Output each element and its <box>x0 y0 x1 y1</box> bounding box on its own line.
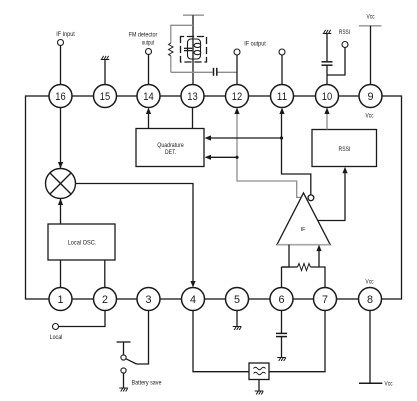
capacitor at pin 10 <box>322 61 333 63</box>
wire quad det to pin 14 <box>148 113 150 129</box>
ground pin 5 <box>233 327 242 331</box>
mixer X1 <box>46 169 76 199</box>
wire filter to ground <box>258 380 260 392</box>
wire Vcc to pin 9 <box>370 26 372 85</box>
pin circles <box>49 85 382 311</box>
svg-text:IF output: IF output <box>244 41 266 48</box>
pin 9 <box>359 85 382 108</box>
svg-text:output: output <box>142 40 155 47</box>
svg-text:Local: Local <box>50 334 63 341</box>
wire pin 6 to cap <box>281 311 283 334</box>
wire IF amp to RSSI <box>318 173 345 221</box>
wire RSSI terminal to pin10 wire <box>327 48 345 76</box>
wire FM det output to pin 14 <box>148 55 150 85</box>
svg-text:Vcc: Vcc <box>366 280 374 286</box>
svg-text:1: 1 <box>57 294 63 306</box>
wire quad det input lower <box>211 156 238 158</box>
pin 11 <box>271 85 294 108</box>
block RSSI <box>312 130 377 167</box>
pin 4 <box>182 288 205 311</box>
pin 1 <box>49 288 72 311</box>
pin 15 <box>94 85 117 108</box>
terminal circle above pin 12 <box>234 49 240 55</box>
IC outline U1 <box>26 96 402 299</box>
ground battery save <box>119 388 128 392</box>
wire quad det input upper <box>211 137 282 139</box>
wire local osc to pin 1 <box>60 260 62 288</box>
arrow into pin 11 <box>279 108 284 115</box>
wire through coil <box>192 37 194 63</box>
svg-text:RSSI: RSSI <box>339 146 351 153</box>
pin 12 <box>226 85 249 108</box>
wire cap to ground <box>281 337 283 358</box>
svg-text:16: 16 <box>55 91 65 103</box>
wire quad det to pin 13 <box>192 108 194 129</box>
svg-text:5: 5 <box>234 294 240 306</box>
pin 5 <box>226 288 249 311</box>
wire pin 8 to Vcc bar <box>369 311 371 384</box>
arrow into mixer bottom <box>58 199 63 206</box>
arrow into pin 4 <box>190 281 195 288</box>
capacitor at pin 6 <box>276 332 287 334</box>
wire local osc to mixer <box>60 199 62 224</box>
coil loop upper <box>194 43 201 47</box>
wire pin 3 to switch <box>137 311 149 365</box>
resistor tank R <box>169 43 173 56</box>
pin number labels <box>55 91 373 306</box>
wire ground to pin 15 <box>104 60 106 85</box>
wire feedback resistor run <box>281 267 283 288</box>
arrow into pin 14 <box>146 108 151 115</box>
wire mixer output to pin 4 <box>76 184 194 282</box>
Vcc bottom bar <box>359 382 382 384</box>
svg-text:IF Input: IF Input <box>56 31 75 38</box>
wire cap to pin 10 <box>326 65 328 84</box>
coil loop lower <box>194 51 201 55</box>
wire switch to ground <box>123 373 125 388</box>
op-amp IF limiter <box>277 193 330 245</box>
block Quadrature DET. <box>136 129 204 167</box>
arrow into pin 12 <box>234 108 239 115</box>
quad tank top bar (gray) <box>183 14 204 16</box>
svg-text:6: 6 <box>278 294 284 306</box>
wire tank bottom to series cap (gray) <box>171 71 213 73</box>
wire RSSI to pin 10 (gray) <box>326 112 328 130</box>
wire pin 2 to Local <box>59 311 106 327</box>
svg-text:11: 11 <box>277 91 287 103</box>
arrow into quad det lower <box>205 155 212 160</box>
wire pin 5 to ground <box>236 311 238 327</box>
svg-text:RSSI: RSSI <box>339 29 350 36</box>
ground pin 6 <box>277 358 286 362</box>
pin 10 <box>316 85 339 108</box>
pin 13 <box>181 85 204 108</box>
svg-text:3: 3 <box>145 294 151 306</box>
svg-text:9: 9 <box>367 91 373 103</box>
svg-text:DET.: DET. <box>165 149 176 156</box>
wire pin16 to mixer <box>60 108 62 169</box>
battery save switch <box>117 341 131 343</box>
wire filter to pin 7 <box>269 311 325 372</box>
wire IF input to pin 16 <box>60 46 62 85</box>
inverting output bubble <box>308 195 314 201</box>
ceramic filter FL1 <box>249 363 269 380</box>
pin 3 <box>137 288 160 311</box>
svg-text:7: 7 <box>322 294 328 306</box>
svg-text:Local OSC.: Local OSC. <box>68 239 97 246</box>
svg-text:12: 12 <box>232 91 242 103</box>
wire ground to cap <box>326 34 328 62</box>
pin 2 <box>94 288 117 311</box>
wire to pin 12 <box>236 55 238 85</box>
block Local OSC. <box>48 224 115 260</box>
pin 6 <box>270 288 293 311</box>
ground at pin 15 <box>101 56 110 60</box>
coil body <box>188 39 201 59</box>
junction at pin11 wire <box>280 136 283 139</box>
terminal circle above pin 11 <box>279 49 285 55</box>
arrow into RSSI bottom <box>342 167 347 174</box>
svg-text:Vcc: Vcc <box>367 14 375 21</box>
resistor R feedback <box>298 264 311 271</box>
wire local osc to pin 2 <box>104 260 106 288</box>
pin 14 <box>137 85 160 108</box>
pin 16 <box>49 85 72 108</box>
svg-text:2: 2 <box>102 294 108 306</box>
wire tank vertical to pin 13 <box>192 15 194 84</box>
ground filter <box>255 391 264 395</box>
capacitor series C (plates) <box>213 68 215 76</box>
svg-text:13: 13 <box>187 91 197 103</box>
svg-text:Vcc: Vcc <box>385 381 393 387</box>
wire pin 4 to filter <box>193 311 249 372</box>
switch blade <box>126 359 137 364</box>
ground at pin 10 <box>323 30 332 34</box>
svg-text:4: 4 <box>190 294 196 306</box>
arrow into pin 10 <box>324 108 329 115</box>
svg-text:FM detector: FM detector <box>129 32 158 39</box>
wire tank left branch (gray) <box>171 25 193 43</box>
capacitor tank C plates <box>184 47 192 49</box>
wire pin 12 limiter (gray) <box>237 112 301 197</box>
svg-text:Vcc: Vcc <box>366 114 374 120</box>
wire arrow into IF base <box>318 250 320 267</box>
wire to pin 11 <box>281 55 283 85</box>
arrow into mixer top <box>58 162 63 169</box>
svg-text:14: 14 <box>143 91 153 103</box>
terminal Local <box>53 324 59 330</box>
quad coil shield box (dashed) <box>181 37 207 63</box>
svg-text:8: 8 <box>367 294 373 306</box>
svg-text:IF: IF <box>301 227 307 233</box>
arrow into quad det upper <box>205 135 212 140</box>
svg-text:15: 15 <box>100 91 110 103</box>
junction at pin12 wire <box>235 156 238 159</box>
svg-text:Quadrature: Quadrature <box>157 142 184 149</box>
wire IF amp base left to pin 6 <box>282 245 290 267</box>
pin 8 <box>359 288 382 311</box>
wire pin 11 limiter output from bubble <box>282 113 311 195</box>
pin 7 <box>314 288 337 311</box>
svg-text:Battery save: Battery save <box>132 379 162 386</box>
svg-text:10: 10 <box>322 91 332 103</box>
